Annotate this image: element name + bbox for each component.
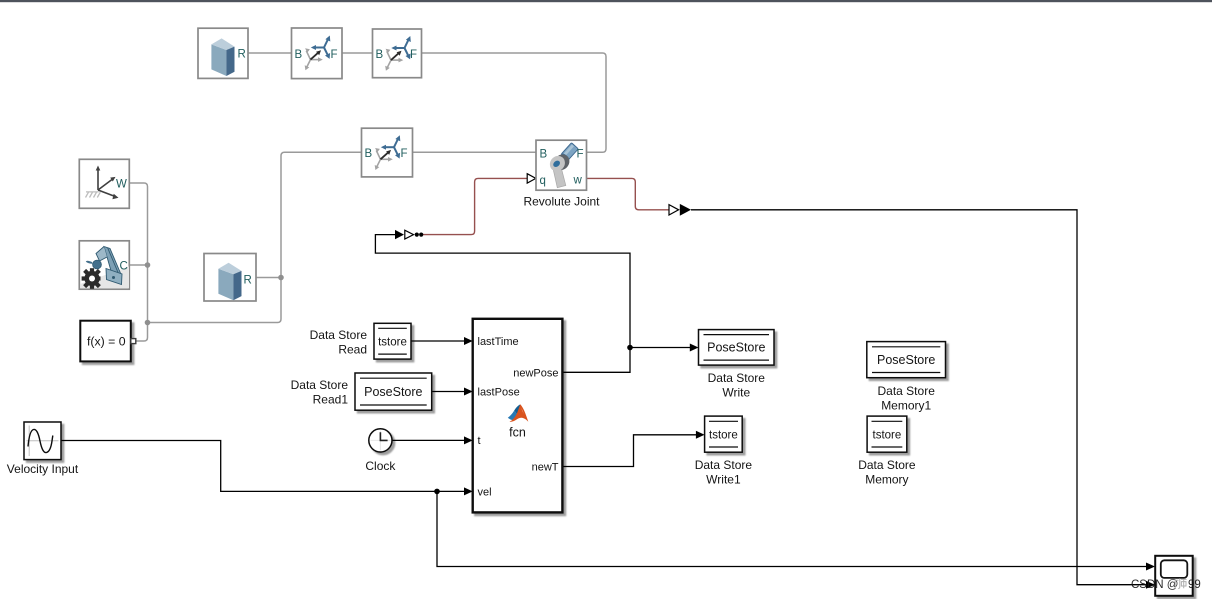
- wire: revolute w PS red to converter: [587, 178, 670, 209]
- svg-text:F: F: [410, 49, 417, 61]
- svg-text:Clock: Clock: [365, 459, 396, 473]
- svg-text:PoseStore: PoseStore: [364, 385, 422, 399]
- svg-text:B: B: [365, 148, 373, 160]
- wire: velocity input to fcn vel: [61, 441, 464, 492]
- watermark CSDN: [1131, 578, 1201, 591]
- MATLAB function block fcn: [473, 319, 563, 513]
- svg-text:Data Store: Data Store: [878, 384, 936, 398]
- wire: converter output to scope input 2: [691, 210, 1147, 585]
- arrowhead scope input1: [1146, 563, 1155, 571]
- svg-text:R: R: [244, 275, 252, 287]
- svg-text:Revolute Joint: Revolute Joint: [523, 195, 600, 209]
- mechanism configuration block: [79, 241, 129, 289]
- svg-text:tstore: tstore: [873, 429, 902, 441]
- solid block Solid2: [204, 254, 256, 302]
- svg-text:Data Store: Data Store: [310, 328, 368, 342]
- arrowhead t: [464, 436, 473, 444]
- svg-text:newPose: newPose: [513, 367, 558, 379]
- svg-text:F: F: [331, 49, 338, 61]
- svg-text:tstore: tstore: [378, 336, 407, 348]
- solver configuration block f(x)=0: [80, 321, 136, 362]
- svg-text:Data Store: Data Store: [695, 458, 753, 472]
- arrowhead vel: [464, 487, 473, 495]
- wire: newT to Data Store Write1: [562, 435, 696, 467]
- svg-text:F: F: [401, 148, 408, 160]
- svg-text:lastTime: lastTime: [478, 336, 519, 348]
- rigid transform block RT1: [292, 28, 343, 79]
- wire: Solid2 R to world net: [256, 277, 281, 279]
- svg-text:Data Store: Data Store: [708, 371, 766, 385]
- svg-text:Memory1: Memory1: [881, 398, 931, 412]
- junction newPose branch: [627, 345, 633, 351]
- wire: world net vertical from RT3 B down to solver rail: [148, 152, 362, 322]
- svg-text:fcn: fcn: [509, 425, 526, 439]
- arrowhead scope input2: [1146, 581, 1155, 589]
- rigid transform block RT3: [362, 128, 413, 177]
- junction vel branch: [434, 489, 440, 495]
- junction Solid2 net: [278, 275, 284, 281]
- scope block: [1155, 556, 1193, 596]
- svg-text:f(x) = 0: f(x) = 0: [87, 335, 126, 349]
- wire: RT2 F down to Revolute F: [422, 53, 607, 152]
- svg-text:C: C: [120, 261, 128, 273]
- arrowhead Data Store Write1: [696, 431, 705, 439]
- canvas top border line: [0, 0, 1212, 2]
- svg-text:Data Store: Data Store: [858, 458, 916, 472]
- wire: converter red to revolute q: [422, 178, 527, 234]
- arrowhead Data Store Write: [690, 344, 699, 352]
- svg-text:w: w: [573, 174, 583, 186]
- svg-text:Data Store: Data Store: [291, 378, 349, 392]
- data store read block tstore: [374, 323, 411, 359]
- arrowhead lastTime: [464, 337, 473, 345]
- svg-text:Memory: Memory: [865, 473, 908, 487]
- wire: branch to Data Store Write: [630, 347, 690, 349]
- wire: world frame W down the left rail: [129, 183, 148, 323]
- svg-text:Read1: Read1: [313, 392, 349, 406]
- svg-text:Velocity Input: Velocity Input: [7, 462, 79, 476]
- arrowhead lastPose: [464, 388, 473, 396]
- svg-text:lastPose: lastPose: [478, 387, 520, 399]
- wire: clock to fcn t: [392, 439, 464, 441]
- data store read block PoseStore: [355, 373, 432, 410]
- svg-text:Read: Read: [338, 342, 367, 356]
- wire: mechanism C to rail: [129, 264, 148, 266]
- svg-text:B: B: [540, 149, 548, 161]
- velocity input block: [24, 422, 61, 460]
- wire: newPose feedback loop to converter: [375, 235, 630, 373]
- solid block Solid1: [198, 28, 248, 78]
- data store memory1 block PoseStore: [867, 342, 946, 378]
- rigid transform block RT2: [373, 29, 422, 78]
- clock block: [369, 429, 392, 452]
- wire: tstore read to fcn lastTime: [411, 340, 464, 342]
- wire: Solid1 R to RT1 B: [248, 52, 292, 54]
- svg-text:B: B: [295, 49, 303, 61]
- svg-text:B: B: [376, 49, 384, 61]
- svg-text:CSDN @: CSDN @: [1131, 579, 1178, 591]
- PS-Simulink converter: [669, 204, 691, 216]
- q input hollow arrow: [527, 174, 536, 183]
- wire: PoseStore read to fcn lastPose: [432, 391, 464, 393]
- Simulink-PS converter: [395, 230, 423, 239]
- data store write block PoseStore: [699, 330, 775, 366]
- svg-text:vel: vel: [478, 486, 492, 498]
- svg-text:t: t: [478, 435, 481, 447]
- wire: solver port up to rail: [136, 323, 148, 342]
- wire: RT3 F to Revolute B: [413, 151, 537, 153]
- data store memory block tstore: [867, 416, 907, 452]
- svg-text:tstore: tstore: [709, 429, 738, 441]
- svg-text:99: 99: [1188, 579, 1201, 591]
- junction solver rail: [145, 320, 151, 326]
- world frame block: [79, 159, 129, 208]
- data store write1 block tstore: [705, 416, 743, 452]
- svg-text:W: W: [116, 178, 127, 190]
- svg-text:q: q: [540, 175, 546, 187]
- svg-text:Write1: Write1: [706, 473, 741, 487]
- svg-text:PoseStore: PoseStore: [707, 341, 765, 355]
- svg-text:Write: Write: [722, 385, 750, 399]
- wire: RT1 F to RT2 B: [342, 52, 373, 54]
- revolute joint block: [536, 140, 587, 190]
- svg-text:F: F: [577, 149, 584, 161]
- svg-text:PoseStore: PoseStore: [877, 353, 935, 367]
- svg-text:R: R: [238, 49, 246, 61]
- wire: vel branch to scope input 1: [437, 491, 1147, 566]
- junction C rail: [145, 262, 151, 268]
- svg-text:newT: newT: [532, 462, 559, 474]
